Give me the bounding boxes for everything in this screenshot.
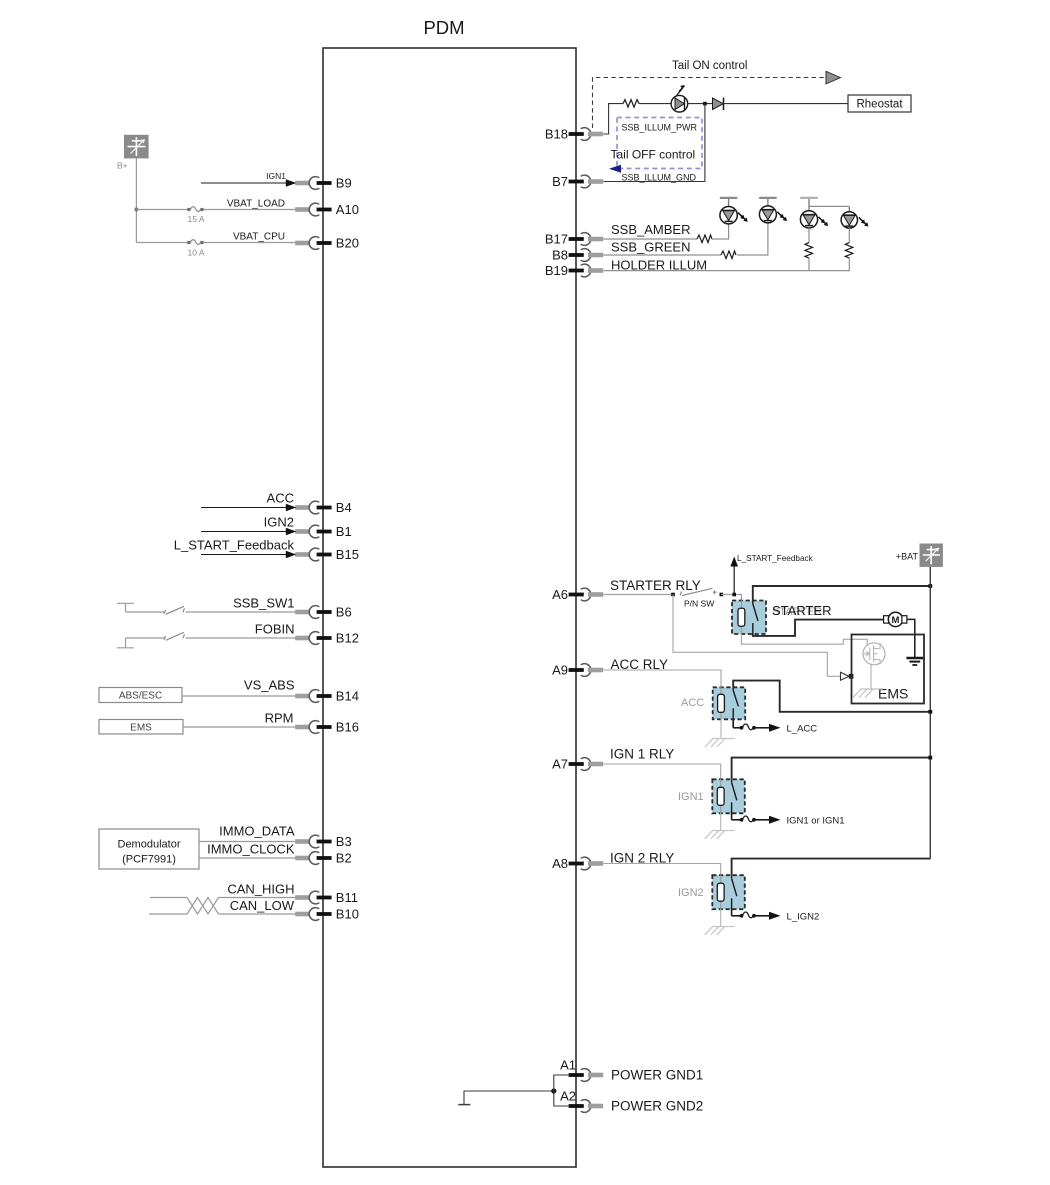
battery B+ symbol <box>124 135 149 159</box>
svg-text:B16: B16 <box>336 720 359 735</box>
svg-text:B15: B15 <box>336 547 359 562</box>
svg-text:Rheostat: Rheostat <box>856 99 903 111</box>
svg-text:EMS: EMS <box>878 686 908 702</box>
connector pin A10 <box>295 202 359 217</box>
wire to fuse 15A <box>136 209 188 211</box>
EMS source box <box>99 720 183 735</box>
connector pin B3 <box>295 834 352 849</box>
SSB_ILLUM_GND net label <box>622 173 697 183</box>
svg-text:SSB_ILLUM_GND: SSB_ILLUM_GND <box>622 173 697 183</box>
svg-text:IGN2: IGN2 <box>264 515 294 530</box>
CAN twisted pair <box>149 898 296 915</box>
svg-text:A10: A10 <box>336 202 359 217</box>
wire resistor to LED green <box>737 223 768 255</box>
chassis ground IGN1 <box>705 831 735 840</box>
wire to fuse 10A <box>136 242 188 244</box>
resistor R2 <box>697 235 712 243</box>
svg-text:FOBIN: FOBIN <box>255 622 295 637</box>
resistor R1 <box>623 100 639 108</box>
wire A8 to IGN2 coil <box>604 864 721 876</box>
relay K2 ACC <box>713 686 746 721</box>
IMMO_DATA net label <box>219 824 295 839</box>
wire SSB_ILLUM_GND to B7 <box>604 104 705 182</box>
wire holder illum top link <box>809 205 849 207</box>
svg-text:B8: B8 <box>552 248 568 263</box>
LED D1 illumination <box>671 85 688 112</box>
POWER GND2 net label <box>611 1099 703 1114</box>
connector pin A2 <box>560 1089 603 1113</box>
connector pin A8 <box>552 856 603 871</box>
wire junction to A1 <box>554 1075 569 1091</box>
node L_START junction <box>732 593 736 597</box>
IGN1 input arrow <box>201 179 296 187</box>
internal ground wire to A1 A2 <box>458 1091 554 1105</box>
wire mosfet source down <box>870 665 872 689</box>
svg-text:L_START_Feedback: L_START_Feedback <box>737 554 814 563</box>
connector pin B20 <box>295 236 359 251</box>
node junction A6 <box>671 593 675 597</box>
wire resistor to LED amber <box>712 224 729 239</box>
VS_ABS net label <box>244 678 295 693</box>
CAN_HIGH net label <box>227 882 294 897</box>
svg-text:10 A: 10 A <box>188 248 205 258</box>
connector pin B15 <box>295 547 359 562</box>
IGN1 net label <box>266 171 286 181</box>
wire A9 to ACC coil <box>604 670 722 687</box>
svg-text:15 A: 15 A <box>188 214 205 224</box>
wire IGN2 coil to chassis ground <box>720 909 722 926</box>
earth ground <box>906 658 923 665</box>
svg-text:A1: A1 <box>560 1058 576 1073</box>
svg-text:B7: B7 <box>552 174 568 189</box>
connector pin A1 <box>560 1058 603 1082</box>
svg-text:CAN_HIGH: CAN_HIGH <box>227 882 294 897</box>
POWER GND1 net label <box>611 1068 703 1083</box>
wire B8 to resistor <box>604 254 722 256</box>
connector pin B2 <box>295 851 352 866</box>
connector pin B4 <box>295 500 352 515</box>
L_START_Feedback label <box>737 554 814 563</box>
svg-text:POWER GND1: POWER GND1 <box>611 1068 703 1083</box>
chassis ground ACC <box>705 739 735 748</box>
wire EMS to B16 <box>183 726 296 728</box>
mosfet Q1 <box>863 643 885 665</box>
IGN 2 RLY net label <box>610 851 674 866</box>
node contact dot <box>720 593 724 597</box>
resistor R3 <box>721 251 736 259</box>
svg-text:Demodulator: Demodulator <box>118 839 181 851</box>
connector pin A9 <box>552 663 603 678</box>
svg-text:A7: A7 <box>552 757 568 772</box>
ABS/ESC box <box>99 688 182 703</box>
relay K1 title override <box>772 603 831 618</box>
relay K1 starter <box>732 600 766 635</box>
LED D6 holder illum 2 <box>841 206 868 228</box>
connector pin B17 <box>545 232 603 247</box>
ACC net label <box>267 491 294 506</box>
L_IGN2 output arrow <box>732 908 781 920</box>
LED D3 SSB amber <box>720 198 748 224</box>
fuse 10A <box>187 240 203 245</box>
svg-text:IMMO_DATA: IMMO_DATA <box>219 824 295 839</box>
wire demodulator to B2 <box>199 857 296 859</box>
svg-text:SSB_ILLUM_PWR: SSB_ILLUM_PWR <box>622 123 698 133</box>
CAN_LOW net label <box>230 898 295 913</box>
svg-text:CAN_LOW: CAN_LOW <box>230 898 295 913</box>
node ground junction <box>551 1088 556 1093</box>
svg-text:SSB_GREEN: SSB_GREEN <box>611 240 690 255</box>
relay K4 IGN2 <box>712 875 745 910</box>
connector pin B9 <box>295 176 352 191</box>
Rheostat box <box>848 95 911 112</box>
wire resistor R4 to B19 wire <box>808 261 810 271</box>
wire B18 to lamp circuit <box>604 104 624 134</box>
STARTER RLY net label <box>610 578 701 593</box>
node B+ label <box>117 161 128 171</box>
connector pin B1 <box>295 524 352 539</box>
L_IGN2 net label <box>787 911 820 922</box>
svg-text:IGN1: IGN1 <box>266 171 286 181</box>
wire starter relay to +BAT rail <box>753 586 931 601</box>
switch P/N SW <box>680 588 717 595</box>
FOBIN net label <box>255 622 295 637</box>
connector pin A7 <box>552 757 603 772</box>
wire diode to rheostat <box>724 103 849 105</box>
svg-text:B6: B6 <box>336 605 352 620</box>
ACC RLY net label <box>611 657 669 672</box>
wire battery vertical <box>135 158 137 242</box>
FOBIN switch to ground <box>117 632 296 648</box>
chassis ground IGN2 <box>705 927 735 936</box>
relay name STARTER <box>772 606 822 618</box>
LED D4 SSB green <box>759 198 787 223</box>
L_ACC net label <box>787 723 818 734</box>
Tail ON control arrow <box>826 71 841 84</box>
svg-text:EMS: EMS <box>130 723 152 734</box>
relay K3 IGN1 <box>712 779 745 814</box>
svg-text:RPM: RPM <box>265 711 294 726</box>
node rail junction 2 <box>928 710 932 714</box>
svg-text:ABS/ESC: ABS/ESC <box>119 691 162 702</box>
LED D5 holder illum 1 <box>800 198 828 228</box>
svg-text:L_START_Feedback: L_START_Feedback <box>174 538 295 553</box>
SSB_GREEN net label <box>611 240 690 255</box>
svg-text:Tail OFF control: Tail OFF control <box>611 148 696 162</box>
svg-text:IGN1: IGN1 <box>678 791 704 803</box>
svg-text:IGN2: IGN2 <box>678 887 704 899</box>
svg-text:B12: B12 <box>336 631 359 646</box>
battery +BAT symbol <box>920 544 943 567</box>
wire A6 monitor to EMS input <box>673 595 841 677</box>
svg-text:A8: A8 <box>552 856 568 871</box>
L_START_Feedback input arrow <box>201 551 296 559</box>
IGN1 or IGN1 net label <box>787 815 845 826</box>
node rail junction 1 <box>928 584 932 588</box>
IGN2 net label <box>264 515 294 530</box>
relay name IGN2 <box>678 887 704 899</box>
svg-text:B3: B3 <box>336 834 352 849</box>
VBAT_LOAD net label <box>227 199 285 210</box>
connector pin B18 <box>545 127 603 142</box>
svg-text:B4: B4 <box>336 500 352 515</box>
IGN1 or IGN1 output arrow <box>732 812 781 824</box>
wire +BAT rail <box>929 567 931 859</box>
SSB_AMBER net label <box>611 222 690 237</box>
SSB_SW1 net label <box>233 596 294 611</box>
wire ABS/ESC to B14 <box>182 695 296 697</box>
fuse 15A <box>187 207 203 212</box>
svg-text:B20: B20 <box>336 236 359 251</box>
relay name ACC <box>681 697 704 709</box>
Demodulator box <box>99 829 199 869</box>
10 A value label <box>188 248 205 258</box>
L_ACC output arrow <box>733 720 780 732</box>
svg-text:VS_ABS: VS_ABS <box>244 678 295 693</box>
svg-text:VBAT_LOAD: VBAT_LOAD <box>227 199 285 210</box>
L_START_Feedback net label <box>174 538 295 553</box>
SSB_SW1 switch to ground <box>117 603 296 614</box>
wire IGN1 switch to rail <box>732 758 931 780</box>
P/N SW label <box>684 599 714 609</box>
PDM title <box>423 17 464 38</box>
IGN 1 RLY net label <box>610 747 674 762</box>
Tail ON control dashed wire <box>593 78 825 129</box>
wire junction to A2 <box>554 1091 569 1106</box>
svg-text:B14: B14 <box>336 689 359 704</box>
svg-text:STARTER RLY: STARTER RLY <box>610 578 701 593</box>
wire demodulator to B3 <box>199 841 296 843</box>
connector pin B19 <box>545 263 603 278</box>
wire B19 holder illum <box>604 261 850 271</box>
EMS box <box>852 635 925 704</box>
svg-text:SSB_SW1: SSB_SW1 <box>233 596 294 611</box>
junction on battery wire <box>135 208 139 212</box>
svg-text:L_IGN2: L_IGN2 <box>787 911 820 922</box>
svg-text:VBAT_CPU: VBAT_CPU <box>233 232 285 243</box>
wire B17 to resistor <box>604 238 698 240</box>
svg-text:IGN 1 RLY: IGN 1 RLY <box>610 747 674 762</box>
svg-text:B2: B2 <box>336 851 352 866</box>
node rail junction 3 <box>928 756 932 760</box>
wire switch to starter coil <box>721 595 741 601</box>
svg-text:M: M <box>892 615 900 626</box>
svg-text:A6: A6 <box>552 587 568 602</box>
svg-text:+BAT: +BAT <box>896 552 919 562</box>
svg-text:B17: B17 <box>545 232 568 247</box>
+BAT label <box>896 552 919 562</box>
wire LED2 to resistor R5 <box>848 228 850 243</box>
connector pin B6 <box>295 605 352 620</box>
wire fuse 15A to pin A10 <box>204 209 296 211</box>
Tail OFF control dashed box <box>617 118 702 169</box>
PDM module box <box>323 48 576 1167</box>
HOLDER ILLUM net label <box>611 258 707 273</box>
connector pin B11 <box>295 890 358 905</box>
svg-text:ACC: ACC <box>267 491 294 506</box>
svg-text:B19: B19 <box>545 263 568 278</box>
wire ACC switch to rail <box>733 681 930 712</box>
Tail ON control label <box>672 60 747 72</box>
svg-text:A9: A9 <box>552 663 568 678</box>
wire fuse 10A to pin B20 <box>204 242 296 244</box>
VBAT_CPU net label <box>233 232 285 243</box>
Tail OFF control label <box>611 148 696 162</box>
svg-text:B+: B+ <box>117 161 128 171</box>
svg-text:SSB_AMBER: SSB_AMBER <box>611 222 690 237</box>
motor M1 <box>884 612 907 626</box>
svg-text:B10: B10 <box>336 907 359 922</box>
relay name IGN1 <box>678 791 704 803</box>
Tail OFF control arrow <box>609 165 621 173</box>
wire resistor to LED <box>639 103 671 105</box>
ACC input arrow <box>201 504 296 512</box>
svg-text:P/N SW: P/N SW <box>684 599 714 609</box>
wire starter coil to EMS mosfet <box>741 634 867 646</box>
15 A value label <box>188 214 205 224</box>
junction node SSB_ILLUM <box>703 102 707 106</box>
SSB_ILLUM_PWR net label <box>622 123 698 133</box>
IMMO_CLOCK net label <box>207 842 295 857</box>
svg-text:IGN1 or IGN1: IGN1 or IGN1 <box>787 815 845 826</box>
svg-text:POWER GND2: POWER GND2 <box>611 1099 703 1114</box>
wire motor to earth ground <box>907 619 915 657</box>
connector pin B10 <box>295 907 359 922</box>
svg-text:L_ACC: L_ACC <box>787 723 818 734</box>
svg-text:(PCF7991): (PCF7991) <box>122 854 176 866</box>
svg-text:IMMO_CLOCK: IMMO_CLOCK <box>207 842 295 857</box>
diode D2 <box>713 98 724 111</box>
resistor R5 <box>845 243 853 261</box>
IGN2 input arrow <box>201 528 296 536</box>
svg-text:STARTER: STARTER <box>772 603 831 618</box>
svg-text:B18: B18 <box>545 127 568 142</box>
connector pin B12 <box>295 631 359 646</box>
svg-text:B9: B9 <box>336 176 352 191</box>
svg-text:Tail ON control: Tail ON control <box>672 60 747 72</box>
svg-text:PDM: PDM <box>423 17 464 38</box>
svg-text:ACC: ACC <box>681 697 704 709</box>
connector pin B16 <box>295 720 359 735</box>
svg-text:A2: A2 <box>560 1089 576 1104</box>
svg-text:B11: B11 <box>336 890 358 905</box>
wire A7 to IGN1 coil <box>604 764 721 779</box>
resistor R4 <box>805 243 813 261</box>
wire IGN2 switch to rail <box>732 859 931 876</box>
RPM net label <box>265 711 294 726</box>
wire LED to diode <box>688 103 713 105</box>
chassis ground EMS internal <box>853 689 883 698</box>
connector pin B8 <box>552 248 603 263</box>
wire IGN1 coil to chassis ground <box>720 813 722 830</box>
svg-text:B1: B1 <box>336 524 352 539</box>
wire A6 <box>604 594 674 596</box>
L_START_Feedback arrow up <box>730 557 738 595</box>
connector pin B14 <box>295 689 359 704</box>
wire LED1 to resistor R4 <box>808 228 810 243</box>
connector pin A6 <box>552 587 603 602</box>
wire ACC coil to chassis ground <box>720 719 722 738</box>
connector pin B7 <box>552 174 603 189</box>
EMS input triangle <box>841 672 854 680</box>
wire starter switch to motor <box>753 620 884 636</box>
